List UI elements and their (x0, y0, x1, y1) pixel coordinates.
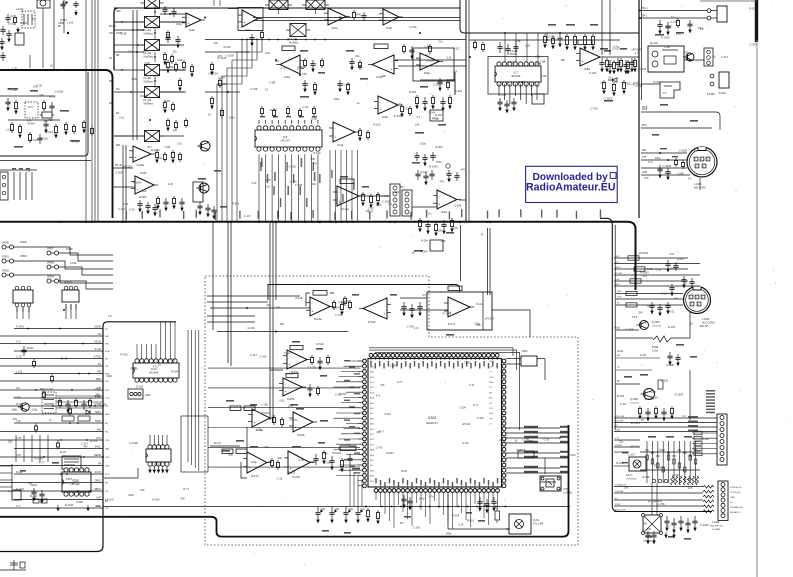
svg-text:C-88: C-88 (164, 99, 170, 103)
svg-text:C-706: C-706 (250, 87, 258, 91)
wire C1 row14 (0, 431, 103, 433)
label group C1r15 (95, 447, 102, 449)
resistor R601 (218, 78, 221, 88)
wire J8 row2 (692, 442, 717, 444)
svg-text:C-204: C-204 (589, 71, 597, 75)
resistor R74 (312, 106, 315, 116)
resistor R1911 (316, 386, 319, 396)
resistor R206 (236, 449, 247, 453)
resistor R124 (450, 218, 453, 232)
svg-text:470: 470 (688, 486, 693, 490)
svg-text:D-103: D-103 (324, 461, 332, 465)
svg-text:R4-: R4- (105, 432, 109, 434)
label group C4r1 (615, 420, 698, 423)
svg-text:SHIFT 5-P: SHIFT 5-P (64, 483, 75, 485)
wire: horizontal signal wire top 2 (253, 20, 460, 22)
svg-text:33K: 33K (643, 522, 648, 526)
filter FL2 (141, 17, 164, 36)
capacitor C302 (678, 516, 683, 531)
resistor R50 (303, 58, 306, 68)
wire IC13 pin2 (141, 344, 143, 359)
svg-text:10K: 10K (140, 488, 145, 492)
op-amp IC11a (333, 186, 363, 211)
resistor R140 (155, 150, 158, 163)
capacitor C293 (645, 408, 650, 421)
resistor R303 (612, 60, 615, 74)
svg-text:0.1: 0.1 (688, 176, 692, 180)
svg-text:C-15: C-15 (543, 437, 549, 441)
label group A1c (116, 10, 122, 147)
svg-text:C-15: C-15 (376, 203, 382, 207)
IC X1 dashed box (16, 8, 35, 28)
svg-text:TXP-4+(H): TXP-4+(H) (730, 492, 741, 494)
svg-text:C-706: C-706 (335, 313, 343, 317)
IC X6 (430, 240, 443, 251)
wire C4 row0 (614, 417, 717, 419)
svg-text:0.1: 0.1 (208, 112, 212, 116)
label B2x2 (342, 194, 343, 202)
svg-text:POWER-GN: POWER-GN (730, 507, 743, 509)
svg-text:470: 470 (83, 445, 88, 449)
resistor R320 (694, 431, 702, 435)
wire: page edge artifact 2 (756, 40, 758, 577)
svg-text:RES: RES (489, 382, 494, 384)
label group A4lab2 (655, 29, 704, 36)
op-amp IC9a (433, 190, 461, 214)
svg-text:R-118: R-118 (224, 45, 231, 49)
capacitor C177 (689, 278, 694, 287)
svg-text:PA-B: PA-B (642, 106, 648, 109)
capacitor C260 (31, 488, 36, 501)
wire C4 v2 (689, 370, 691, 420)
svg-text:1K: 1K (690, 321, 693, 325)
svg-text:C-509: C-509 (392, 190, 400, 194)
capacitor C210 (313, 454, 318, 465)
label group B4r2 (615, 267, 621, 269)
capacitor C261 (39, 490, 44, 503)
svg-text:1K: 1K (559, 436, 562, 440)
resistor R280 (626, 291, 637, 295)
label group A2b (198, 170, 227, 208)
svg-text:+: + (330, 19, 332, 23)
wire QFP bottom fanout (376, 492, 498, 529)
wire C3 link (492, 310, 530, 337)
svg-text:0.1: 0.1 (404, 107, 408, 111)
svg-text:C-706: C-706 (590, 107, 598, 111)
wire IC5 pin1 up (258, 120, 260, 124)
svg-text:8M: 8M (617, 355, 620, 357)
svg-text:JP608: JP608 (47, 262, 54, 265)
svg-text:IC15b: IC15b (287, 397, 295, 401)
svg-text:-: - (385, 12, 386, 16)
svg-text:R-204: R-204 (719, 91, 727, 95)
wire D1 bracket (0, 464, 12, 489)
svg-text:C90: C90 (348, 508, 353, 511)
svg-text:10K: 10K (506, 527, 511, 531)
label group C1r18 (95, 472, 101, 474)
svg-text:T8OP: T8OP (95, 421, 101, 423)
svg-text:MO8-B: MO8-B (615, 445, 622, 447)
svg-text:CA-77: CA-77 (626, 474, 633, 477)
svg-text:C-15: C-15 (661, 292, 667, 296)
wire: B+ line v7 (487, 228, 489, 295)
wire xcol v4 (154, 76, 156, 88)
op-amp IC4b (374, 96, 402, 119)
transistor Q3 (196, 183, 209, 193)
svg-text:1K: 1K (641, 418, 644, 422)
wire A1 h1 (0, 95, 54, 97)
svg-text:0.1: 0.1 (32, 17, 36, 21)
capacitor C92 (513, 42, 518, 53)
svg-text:S/4LC: S/4LC (95, 447, 102, 449)
filter FL8 (302, 0, 329, 14)
label group LA2b (334, 25, 458, 149)
ground IC19 pin2 (153, 466, 155, 472)
resistor R71 (272, 108, 275, 118)
wire IC5 pin6 up (291, 120, 293, 124)
svg-text:+: + (137, 188, 139, 192)
label group C1r10 (94, 404, 101, 406)
capacitor C137 (623, 60, 628, 74)
wire C1 row16 (14, 448, 103, 450)
label group C1ri21 (105, 500, 109, 502)
svg-text:3.3K: 3.3K (265, 178, 271, 182)
resistor R284 (654, 406, 657, 419)
watermark box (526, 166, 618, 202)
svg-text:JP602: JP602 (2, 270, 9, 273)
svg-text:C-88: C-88 (269, 80, 275, 84)
label group C1ri4 (105, 359, 109, 361)
wire xbox out y92 (160, 91, 184, 93)
label group B1b (12, 168, 31, 173)
svg-text:GND: GND (642, 172, 647, 174)
svg-text:C-1028: C-1028 (54, 89, 63, 93)
resistor R302 (605, 58, 608, 72)
wire C4 h7 (616, 357, 660, 359)
svg-text:J-100E: J-100E (712, 522, 720, 524)
label group D1a (64, 478, 75, 485)
svg-text:0.01: 0.01 (669, 252, 675, 256)
resistor R664 (34, 424, 37, 433)
resistor R70 (260, 106, 263, 116)
resistor R3 (13, 15, 16, 25)
resistor R213 (340, 458, 343, 472)
label group LA1a (5, 17, 79, 143)
wire C1 drop 17 (16, 307, 18, 319)
resistor R240 (495, 508, 500, 523)
wire: corner wire to audio section (460, 0, 639, 33)
transformer T1 (642, 514, 663, 543)
label group C4h (706, 390, 715, 413)
wire IC7 pin5 (520, 84, 522, 100)
svg-text:C-509: C-509 (390, 365, 397, 367)
wire C1 row10 (14, 397, 103, 399)
wire J8 row0 (692, 432, 717, 434)
svg-text:R-118: R-118 (295, 296, 302, 300)
wire IC5 pin7 down (297, 154, 299, 221)
svg-text:C-117: C-117 (665, 25, 672, 29)
wire QFP right bus (506, 426, 568, 473)
svg-text:470: 470 (694, 174, 699, 178)
resistor R176 (630, 279, 641, 283)
label group C1ri12 (105, 423, 109, 425)
svg-text:D-103: D-103 (90, 439, 98, 443)
wire C3 v1 (482, 292, 484, 330)
svg-text:C-117: C-117 (620, 402, 627, 406)
capacitor C295 (661, 408, 666, 421)
capacitor C230 (401, 302, 406, 316)
svg-text:R-204: R-204 (339, 392, 347, 396)
svg-text:R-77: R-77 (379, 431, 385, 433)
resistor R323 (694, 447, 702, 451)
svg-text:+: + (391, 68, 393, 72)
wire: control line v4 (269, 223, 271, 420)
wire: top-left box outline 2 (0, 160, 91, 162)
svg-text:ADA: ADA (370, 397, 375, 400)
label group LB1a (115, 145, 206, 211)
label group A4ext (642, 104, 698, 136)
label group XL (109, 26, 116, 105)
resistor R84 (448, 95, 451, 109)
wire A4 h5 (641, 112, 720, 130)
resistor R211 (322, 450, 325, 464)
svg-text:RF: RF (116, 112, 120, 115)
svg-text:22u: 22u (173, 50, 178, 54)
wire: audio feed line 2 (469, 39, 620, 41)
svg-text:C-1028: C-1028 (700, 523, 709, 527)
svg-text:C-706: C-706 (338, 300, 346, 304)
wire C1 row12 (0, 413, 103, 415)
wire D4 row3 (614, 492, 703, 494)
capacitor C193 (307, 384, 312, 397)
wire IC5 pin10 down (317, 154, 319, 221)
svg-text:U5-: U5- (105, 491, 109, 493)
label group C2a (290, 294, 397, 406)
resistor R93 (565, 34, 568, 50)
svg-text:100p: 100p (128, 493, 134, 497)
label group C1ri19 (105, 483, 109, 485)
wire: main block left edge upper (114, 8, 118, 70)
svg-text:SB: SB (116, 54, 120, 57)
wire C3 h1 (400, 297, 427, 299)
svg-text:4.7u: 4.7u (433, 116, 439, 120)
label group C4d (652, 344, 684, 352)
wire D3 h2 (448, 528, 509, 530)
resistor R61 (366, 130, 369, 140)
svg-text:R-510: R-510 (60, 18, 68, 22)
svg-text:OP3O: OP3O (95, 481, 102, 483)
svg-text:0.1: 0.1 (389, 202, 393, 206)
svg-text:10K: 10K (560, 58, 565, 62)
label group C1r14 (96, 438, 101, 440)
wire C1 row8 (0, 380, 103, 382)
IC X12 dashed (40, 389, 56, 413)
svg-text:C89: C89 (334, 508, 339, 511)
wire C1 row19 (14, 473, 103, 475)
svg-text:+: + (384, 312, 386, 316)
svg-text:+: + (289, 363, 291, 367)
svg-text:MIX: MIX (116, 144, 121, 147)
svg-text:R-1043: R-1043 (151, 148, 160, 152)
capacitor C641 (422, 154, 427, 166)
svg-text:TP10: TP10 (436, 161, 442, 164)
wire staircase 2 (232, 40, 257, 222)
resistor R203 (280, 417, 283, 427)
svg-text:22u: 22u (16, 387, 21, 390)
wire xcol v1 (154, 4, 156, 16)
svg-text:R-330: R-330 (16, 403, 23, 406)
svg-text:JP-610: JP-610 (64, 281, 72, 284)
svg-text:C88: C88 (320, 508, 325, 511)
wire QFP left drop 3 (361, 480, 363, 507)
wire B1 jw1 (13, 247, 113, 255)
svg-text:100p: 100p (177, 58, 183, 62)
label group LC3a (407, 293, 495, 330)
label group LA4b (600, 48, 641, 101)
label B2x0 (331, 170, 332, 178)
IC X3 dashed box (25, 102, 38, 118)
svg-text:+: + (254, 421, 256, 425)
label group C1ri0 (105, 329, 108, 331)
wire xbox feed y22 (114, 21, 144, 23)
wire C4 h6 (616, 383, 640, 385)
label group LA2a (208, 41, 318, 120)
wire D4 row5 (614, 505, 703, 507)
svg-text:47K: 47K (228, 453, 233, 457)
svg-text:R-510: R-510 (467, 519, 475, 523)
svg-text:MuRata: MuRata (144, 55, 154, 59)
svg-text:2.2K: 2.2K (251, 181, 257, 185)
svg-text:2.2K: 2.2K (168, 182, 174, 186)
label group LD4a (616, 439, 692, 480)
wire IC13 pin6 (160, 322, 162, 359)
wire B4 h4 (641, 174, 690, 176)
svg-text:OSC: OSC (489, 377, 494, 379)
wire C1 row17 (0, 456, 103, 458)
IC X11 (128, 389, 151, 399)
capacitor C2 (5, 14, 14, 23)
label group D2l (214, 440, 244, 452)
filter FL5 (141, 87, 164, 106)
resistor R80 (415, 95, 418, 109)
label group D4r1 (615, 445, 622, 447)
resistor R633 (166, 118, 169, 131)
svg-text:R-1043: R-1043 (16, 326, 25, 329)
svg-text:D-103: D-103 (653, 80, 661, 84)
label group A3b (510, 50, 518, 56)
wire A2 g3 (395, 59, 466, 61)
node wire junctions (63, 10, 669, 508)
svg-text:R-77: R-77 (28, 105, 34, 109)
svg-text:L-105: L-105 (522, 438, 529, 442)
capacitor C622 (165, 34, 170, 43)
svg-text:1K: 1K (411, 251, 414, 255)
label group A1b (8, 88, 80, 148)
svg-text:10K: 10K (674, 297, 679, 301)
svg-text:R-204: R-204 (421, 239, 429, 243)
wire A3 drop1 (546, 33, 548, 40)
label group C4f (617, 351, 648, 383)
svg-text:R-510: R-510 (316, 342, 324, 346)
svg-text:L-105: L-105 (413, 525, 420, 529)
svg-text:3.3K: 3.3K (37, 84, 43, 88)
svg-text:4OB: 4OB (105, 351, 110, 353)
resistor R281 (626, 303, 637, 307)
wire IC7 feed2 (526, 33, 528, 62)
label group LB2a (336, 190, 400, 214)
wire IC13 pin9 (174, 322, 176, 359)
svg-text:C-204: C-204 (460, 408, 467, 410)
svg-text:C-706: C-706 (684, 477, 692, 481)
label group D3a (400, 512, 485, 525)
svg-text:D-103: D-103 (136, 385, 144, 389)
label group C1ri9 (105, 398, 110, 400)
capacitor C143 (179, 198, 184, 211)
crystal X501 (506, 350, 545, 380)
svg-text:MuRata: MuRata (289, 41, 299, 45)
filter FL4 (141, 65, 164, 84)
resistor R61 (346, 82, 349, 95)
svg-text:R-902: R-902 (409, 90, 417, 94)
resistor R44 (282, 46, 295, 51)
svg-text:PHO: PHO (617, 291, 622, 293)
label group B4r3 (615, 273, 622, 275)
wire B1 h2 (112, 186, 135, 188)
IC X2 (15, 33, 24, 45)
svg-text:ADA: ADA (370, 449, 375, 452)
wire C4 row2 (614, 426, 717, 428)
svg-text:C-15: C-15 (368, 207, 374, 211)
wire QFP left fanout (334, 361, 363, 475)
label group D4a (648, 436, 692, 438)
svg-text:B2.4M: B2.4M (109, 26, 116, 28)
IC IC7 outer box (488, 57, 548, 95)
svg-text:JP607: JP607 (47, 248, 54, 251)
svg-text:R-330: R-330 (14, 396, 22, 400)
wire C1 link3 (56, 413, 103, 415)
svg-text:IC10b: IC10b (140, 172, 147, 175)
wire xbox feed y45 (114, 44, 144, 46)
resistor R200 (230, 406, 241, 410)
wire B4 row5 (614, 280, 688, 282)
svg-text:X-501: X-501 (563, 488, 570, 491)
label group QFP pins (370, 360, 498, 487)
svg-text:C-88: C-88 (164, 145, 170, 149)
transistor Q9 box (626, 457, 646, 480)
op-amp IC16a (248, 409, 274, 432)
wire IC7 pin1 (498, 84, 500, 96)
resistor network RN2 (62, 416, 90, 421)
resistor R34 (178, 78, 181, 91)
svg-text:1K: 1K (684, 281, 687, 285)
svg-text:2.2K: 2.2K (676, 32, 682, 36)
label group C1ri11 (105, 414, 110, 416)
svg-text:100p: 100p (535, 61, 541, 65)
label group D4d (622, 452, 628, 463)
svg-text:C-117: C-117 (11, 88, 18, 92)
svg-text:NEO: NEO (105, 414, 110, 416)
svg-text:47K: 47K (440, 180, 445, 184)
wire D4 hgrid (640, 451, 700, 453)
svg-text:MIC-ALCO: MIC-ALCO (730, 511, 741, 514)
resistor R208 (270, 458, 273, 468)
wire C1 row11 (0, 405, 103, 407)
svg-text:Tx-On: Tx-On (476, 303, 483, 306)
label group C1r5 (98, 364, 101, 366)
svg-text:100p: 100p (11, 407, 17, 411)
wire IC7 pin8 (536, 84, 538, 100)
resistor R32 (163, 100, 166, 113)
